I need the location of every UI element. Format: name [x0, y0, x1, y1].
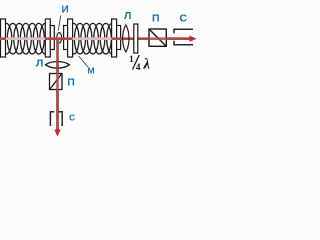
laser head 2 (modulator M) left cap [64, 26, 68, 50]
svg-text:1: 1 [129, 55, 134, 65]
coil 2 winding (modulator M) [68, 23, 118, 54]
beam arrowhead bottom [54, 130, 60, 137]
lens L vertical [123, 25, 129, 52]
svg-text:4: 4 [136, 63, 141, 73]
laser head 1 left flange [1, 19, 6, 57]
svg-text:С: С [180, 13, 188, 25]
svg-text:П: П [152, 13, 160, 25]
beam dulled inside coil 2 [73, 37, 112, 40]
laser head 1 right cap [50, 26, 54, 50]
aperture/cell И between heads [57, 33, 62, 43]
svg-text:С: С [69, 112, 75, 122]
beam arrowhead right [190, 36, 197, 42]
polarizer cube P bottom [50, 74, 63, 90]
cube P diagonal [150, 30, 166, 46]
quarter-wave plate [134, 24, 138, 53]
laser head 2 right cap [117, 26, 121, 50]
svg-text:λ: λ [143, 57, 151, 73]
svg-text:И: И [62, 5, 69, 16]
lens L horizontal [46, 62, 70, 69]
laser head 2 right flange [112, 19, 117, 57]
svg-text:П: П [67, 77, 75, 89]
svg-text:М: М [88, 66, 95, 76]
pointer line to И [58, 16, 60, 31]
redraw vertical beam over cube [56, 60, 59, 130]
beam dulled inside coil 1 [6, 37, 45, 40]
label 1/4 [129, 55, 151, 73]
cube P bottom diagonal [50, 74, 61, 89]
pointer line to M [79, 56, 88, 67]
horizontal red beam [0, 37, 190, 40]
redraw beam over cube P [146, 37, 190, 40]
svg-text:Л: Л [124, 10, 131, 22]
laser head 1 right flange [45, 19, 50, 57]
detector C right [174, 29, 193, 45]
coil 1 winding [1, 23, 51, 54]
svg-text:Л: Л [36, 58, 43, 70]
detector C bottom [50, 112, 62, 126]
laser head 2 left flange [68, 19, 73, 57]
vertical red beam [56, 39, 59, 130]
polarizer cube P right [149, 29, 166, 46]
